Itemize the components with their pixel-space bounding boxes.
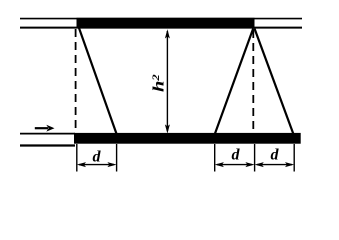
svg-text:d: d bbox=[271, 147, 280, 164]
svg-text:d: d bbox=[93, 148, 102, 165]
svg-text:d: d bbox=[232, 147, 241, 164]
